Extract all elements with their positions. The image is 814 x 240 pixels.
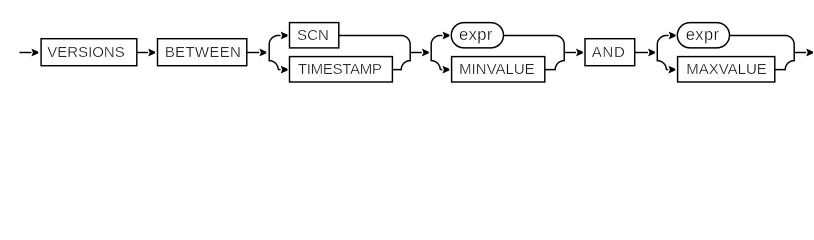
wire: join2 exit to AND xyxy=(564,52,576,54)
svg-text:MAXVALUE: MAXVALUE xyxy=(686,61,767,78)
box MINVALUE xyxy=(452,57,545,82)
wire: SCN exit to join1 xyxy=(339,36,410,70)
arrowhead into SCN xyxy=(281,32,288,40)
wire: final join exit xyxy=(794,52,806,54)
box TIMESTAMP xyxy=(290,57,393,82)
arrowhead into oval expr2 xyxy=(669,32,676,40)
wire: split1 riser with corners xyxy=(269,36,278,70)
svg-text:SCN: SCN xyxy=(297,27,329,44)
wire: split3 top to oval expr2 xyxy=(666,35,668,37)
box BETWEEN xyxy=(158,39,247,66)
wire: split1 bottom to TIMESTAMP xyxy=(278,69,280,71)
wire: join1 exit to split2 xyxy=(410,52,422,54)
wire: split2 riser with corners xyxy=(431,36,440,70)
box VERSIONS xyxy=(41,39,137,66)
arrowhead into MAXVALUE xyxy=(668,66,675,74)
box SCN xyxy=(290,23,339,48)
svg-text:BETWEEN: BETWEEN xyxy=(165,44,241,61)
svg-text:AND: AND xyxy=(592,44,626,61)
wire: split3 bottom to MAXVALUE xyxy=(666,69,668,71)
svg-text:TIMESTAMP: TIMESTAMP xyxy=(298,61,382,78)
svg-text:expr: expr xyxy=(686,26,720,44)
oval expr (first) xyxy=(451,23,503,48)
svg-text:expr: expr xyxy=(459,26,493,44)
wire: split2 top to oval expr1 xyxy=(440,35,442,37)
arrowhead into split3 xyxy=(648,49,655,57)
wire: BETWEEN to split1 xyxy=(247,52,259,54)
wire: oval expr2 exit to final join xyxy=(730,36,795,70)
wire: split1 top to SCN xyxy=(278,35,280,37)
arrowhead end xyxy=(806,49,813,57)
arrowhead into BETWEEN xyxy=(148,49,155,57)
wire: oval expr1 exit to join2 xyxy=(504,36,565,70)
arrowhead into TIMESTAMP xyxy=(281,66,288,74)
box MAXVALUE xyxy=(678,57,775,82)
wire: AND to split3 xyxy=(635,52,648,54)
wire: start line xyxy=(20,52,32,54)
wire: split3 riser with corners xyxy=(657,36,666,70)
wire: VERSIONS to BETWEEN xyxy=(137,52,148,54)
arrowhead into split1 xyxy=(259,49,266,57)
arrowhead into MINVALUE xyxy=(442,66,449,74)
arrowhead into AND xyxy=(576,49,583,57)
arrowhead into split2 xyxy=(422,49,429,57)
oval expr (second) xyxy=(677,23,729,48)
svg-text:VERSIONS: VERSIONS xyxy=(47,44,125,61)
arrowhead into oval expr1 xyxy=(443,32,450,40)
arrowhead into VERSIONS xyxy=(31,49,38,57)
box AND xyxy=(585,39,635,66)
svg-text:MINVALUE: MINVALUE xyxy=(459,61,535,78)
wire: split2 bottom to MINVALUE xyxy=(440,69,442,71)
